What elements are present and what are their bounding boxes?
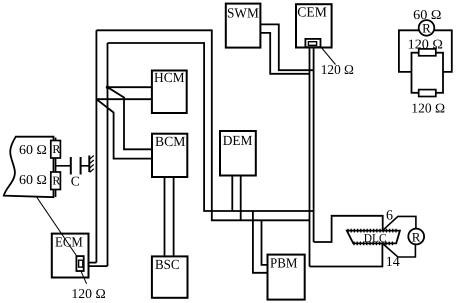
wire bus1 left vertical (95, 30, 97, 262)
inset parallel loop box (412, 53, 444, 93)
wire pin14 to ohmmeter (383, 244, 416, 257)
ground hatch ticks (90, 156, 94, 173)
svg-text:120 Ω: 120 Ω (408, 37, 443, 52)
wire SWM to bus1 (260, 33, 309, 74)
svg-text:BSC: BSC (155, 258, 180, 273)
wire SWM to bus2 (260, 24, 313, 70)
svg-text:DEM: DEM (223, 134, 253, 149)
wire DLC pin14 feed (310, 243, 383, 266)
wire BCM-BSC 2 (173, 177, 175, 256)
svg-text:120 Ω: 120 Ω (321, 62, 354, 77)
module ECM (52, 234, 89, 278)
wire capacitor leads (56, 165, 90, 167)
inset resistor upper 120 ohm (419, 49, 436, 56)
svg-text:R: R (52, 174, 60, 188)
wire DEM tap2 (240, 176, 242, 221)
paper annotation shape (4, 137, 54, 198)
module PBM (268, 255, 305, 300)
resistor R lower (60 ohm) (51, 172, 61, 190)
connector DLC body (347, 231, 400, 244)
ohmmeter R at DLC (408, 229, 424, 245)
svg-text:60 Ω: 60 Ω (19, 142, 47, 157)
resistor 120 ohm in ECM outer (76, 256, 83, 271)
capacitor C plates (71, 157, 81, 175)
svg-text:BCM: BCM (155, 135, 186, 150)
wire HCM tap2 (96, 98, 151, 100)
svg-text:CEM: CEM (297, 5, 327, 20)
ground shield bar (88, 156, 90, 173)
resistor 120 ohm in ECM inner (79, 260, 83, 267)
wire ECM tap upper (83, 262, 96, 264)
module DEM (220, 131, 256, 176)
wire CEM bus1 vertical (309, 48, 311, 267)
wire CEM bus2 vertical (313, 48, 315, 243)
module SWM (226, 4, 261, 48)
svg-text:R: R (52, 142, 60, 156)
svg-text:PBM: PBM (270, 257, 298, 272)
svg-text:120 Ω: 120 Ω (71, 286, 105, 301)
inset equivalent circuit wires (399, 30, 452, 72)
wire PBM feed B (262, 220, 268, 265)
resistor 120 ohm in CEM outer (305, 39, 320, 47)
callout line ECM resistor to 120 ohm label (81, 271, 87, 284)
svg-text:C: C (71, 173, 80, 188)
module BSC (152, 256, 188, 297)
resistor R upper (60 ohm) (51, 141, 61, 159)
svg-text:HCM: HCM (154, 71, 185, 86)
wire DEM tap1 (231, 176, 233, 212)
callout line paper to ECM resistor (37, 197, 77, 256)
svg-text:ECM: ECM (55, 236, 83, 251)
svg-text:SWM: SWM (227, 6, 259, 21)
wire bus2 left vertical (107, 43, 109, 266)
wire PBM feed A (253, 211, 268, 273)
svg-text:120 Ω: 120 Ω (411, 101, 445, 116)
wire twist diagonal 2 (96, 99, 152, 158)
svg-text:60 Ω: 60 Ω (413, 7, 441, 22)
wire top outer loop (96, 30, 309, 220)
resistor 120 ohm in CEM inner (308, 42, 316, 46)
module HCM (152, 71, 187, 114)
module BCM (152, 134, 187, 177)
wire BCM-BSC 1 (164, 177, 166, 256)
connector DLC pin ticks (348, 229, 396, 246)
svg-text:R: R (412, 229, 421, 244)
wire ECM tap lower (83, 265, 107, 267)
wire pin6 to ohmmeter (383, 216, 416, 230)
svg-text:R: R (422, 21, 431, 36)
wire DLC pin6 feed (314, 216, 383, 242)
node junction dot (106, 86, 109, 89)
inset ohmmeter R (419, 20, 435, 36)
svg-text:60 Ω: 60 Ω (19, 172, 47, 187)
wire top inner loop (108, 43, 314, 211)
callout line CEM resistor (321, 47, 336, 65)
wire resistor chain on paper edge (55, 138, 57, 198)
wire HCM tap1 (108, 86, 152, 88)
inset resistor lower 120 ohm (419, 90, 436, 97)
wire twist diagonal 1 (108, 87, 153, 149)
module CEM (296, 4, 332, 47)
